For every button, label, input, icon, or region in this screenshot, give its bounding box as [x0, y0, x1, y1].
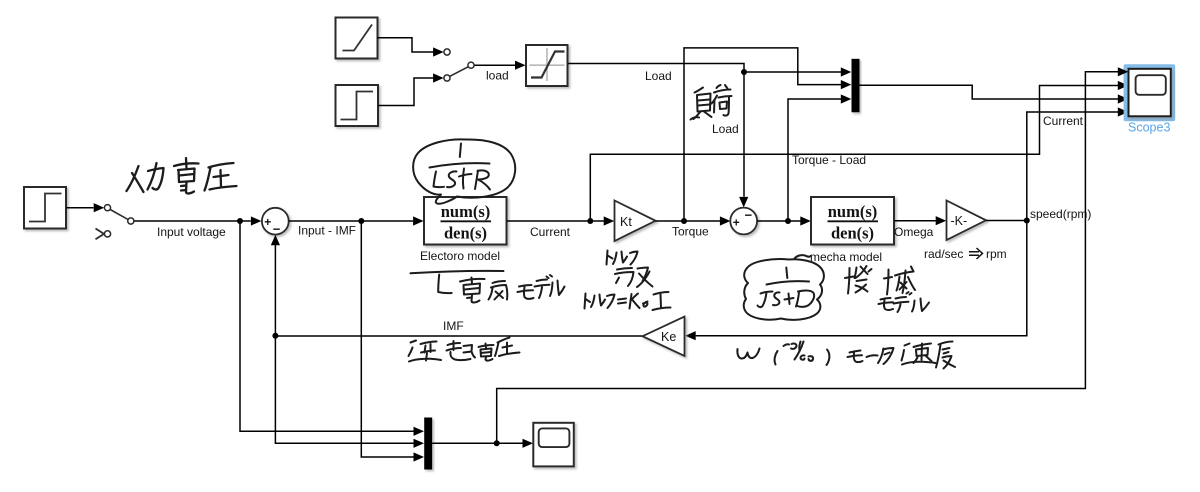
node junction Input-IMF branch [358, 218, 364, 224]
svg-text:−: − [745, 208, 753, 223]
svg-text:Input - IMF: Input - IMF [298, 224, 356, 238]
wire IMF up into sum1 minus input [274, 245, 276, 336]
manual switch SW-input (unconnected second input stub) [96, 229, 105, 240]
svg-text:Current: Current [530, 225, 571, 239]
transfer function block mecha model num(s)/den(s) [811, 197, 894, 245]
wire Torque-Load branch up to Mux input 3, label Torque - Load [788, 99, 841, 221]
svg-text:num(s): num(s) [828, 202, 878, 221]
wire Input-IMF down to bottom mux input 3 [361, 221, 413, 457]
svg-text:Input voltage: Input voltage [157, 225, 226, 239]
handwritten annotation: kikai model (mechanical model) [845, 266, 929, 312]
scope block Scope (bottom) [533, 423, 574, 467]
svg-text:+: + [733, 216, 740, 230]
svg-text:speed(rpm): speed(rpm) [1030, 207, 1091, 221]
svg-text:Ke: Ke [661, 330, 676, 344]
wire switch2 to sum1, label Input voltage [134, 220, 251, 222]
node junction Current branch [587, 218, 593, 224]
handwritten annotation: fuka (load) [691, 85, 732, 120]
handwritten annotation: bubble 1/(Js+D) [744, 255, 824, 320]
node junction speed branch [1024, 218, 1030, 224]
svg-text:den(s): den(s) [444, 224, 487, 243]
handwritten annotation: gyakuki denatsu (back EMF) [409, 338, 520, 362]
svg-text:−: − [273, 222, 281, 237]
node junction Torque-Load branch [785, 218, 791, 224]
svg-text:Load: Load [645, 69, 672, 83]
svg-text:Torque: Torque [672, 225, 709, 239]
ramp source block Ramp [336, 18, 378, 59]
svg-text:load: load [486, 69, 509, 83]
gain block Ke (feedback, points left) [643, 317, 685, 357]
step source block Step1 [336, 85, 379, 126]
svg-text:Current: Current [1043, 114, 1084, 128]
wire sum1 to Electoro model, label Input - IMF [289, 220, 413, 222]
wire switch to Saturation, label load [474, 64, 515, 66]
mux block bottom (V, IMF, V-IMF) [424, 418, 432, 470]
wire Load branch to Mux input 1 [744, 71, 841, 73]
svg-text:Omega: Omega [894, 225, 934, 239]
svg-text:num(s): num(s) [441, 202, 491, 221]
svg-text:-K-: -K- [951, 214, 968, 228]
svg-text:+: + [264, 215, 271, 229]
svg-text:rpm: rpm [986, 247, 1007, 261]
handwritten annotation: omega rad/s motor speed [737, 342, 955, 369]
wire bottom mux output to Scope [432, 442, 522, 444]
saturation block [526, 45, 568, 86]
svg-text:Torque - Load: Torque - Load [792, 153, 866, 167]
svg-text:Kt: Kt [620, 215, 632, 229]
wire bottom branch up and across to Scope3 input 1 [497, 72, 1118, 444]
wire Step to switch2 input 1 [67, 207, 94, 209]
transfer function block Electoro model num(s)/den(s) [424, 197, 507, 245]
sum block S2 (+ -) [730, 208, 757, 235]
wire Ke output back to sum1, label IMF [275, 335, 642, 337]
wire Electoro to Kt gain, label Current [507, 220, 604, 222]
svg-text:Scope3: Scope3 [1128, 121, 1170, 135]
gain block -K- (rad/sec to rpm) [947, 201, 987, 241]
wire -K- output, label speed(rpm) [986, 220, 1027, 222]
node junction IMF branch [272, 333, 278, 339]
sum block S1 (+ -) [262, 208, 289, 235]
node junction Torque branch [681, 218, 687, 224]
svg-text:Load: Load [712, 122, 739, 136]
wire sum2 to mecha model [757, 220, 800, 222]
wire IMF down to bottom mux input 2 [275, 336, 413, 444]
manual switch SW-load [444, 49, 474, 81]
wire Current branch up and across to Scope3 input 2 [590, 86, 1118, 222]
svg-text:IMF: IMF [443, 319, 464, 333]
mux block (Load, Torque, Torque-Load) [852, 59, 860, 113]
svg-text:rad/sec: rad/sec [924, 247, 963, 261]
svg-text:mecha model: mecha model [810, 250, 882, 264]
handwritten annotation: denki model (electric model) underline [411, 271, 565, 303]
handwritten annotation: nyuuryoku denatsu (input voltage) [127, 158, 237, 193]
svg-text:Electoro model: Electoro model [420, 249, 500, 263]
svg-text:den(s): den(s) [831, 224, 874, 243]
node junction bottom branch [494, 440, 500, 446]
gain block Kt [615, 201, 656, 242]
handwritten annotation: torque constant notes [585, 251, 671, 311]
scope block Scope3 (selected, blue) [1124, 64, 1176, 121]
wire Kt to sum2, label Torque [656, 220, 721, 222]
wire mux output to Scope3 input 3 [860, 85, 1119, 99]
wire ramp to switch input 1 [378, 38, 434, 52]
handwritten annotation: bubble 1/(Ls+R) [413, 139, 515, 203]
wire speed branch down to Ke gain [696, 221, 1027, 336]
node junction Input voltage branch [237, 218, 243, 224]
wire Step1 to switch input 2 [378, 78, 434, 106]
wire Input voltage down to bottom mux input 1 [240, 221, 414, 431]
step source block Step (input voltage) [24, 187, 66, 229]
wire speed branch up to Scope3 input 4 [1027, 112, 1118, 221]
wire mecha to -K- gain, label Omega [894, 220, 936, 222]
wire Torque branch up over to Mux input 2 [684, 48, 841, 221]
wire Saturation output -> Load net: across, down to sum2, label Load [568, 64, 744, 197]
node junction on Load wire [741, 69, 747, 75]
